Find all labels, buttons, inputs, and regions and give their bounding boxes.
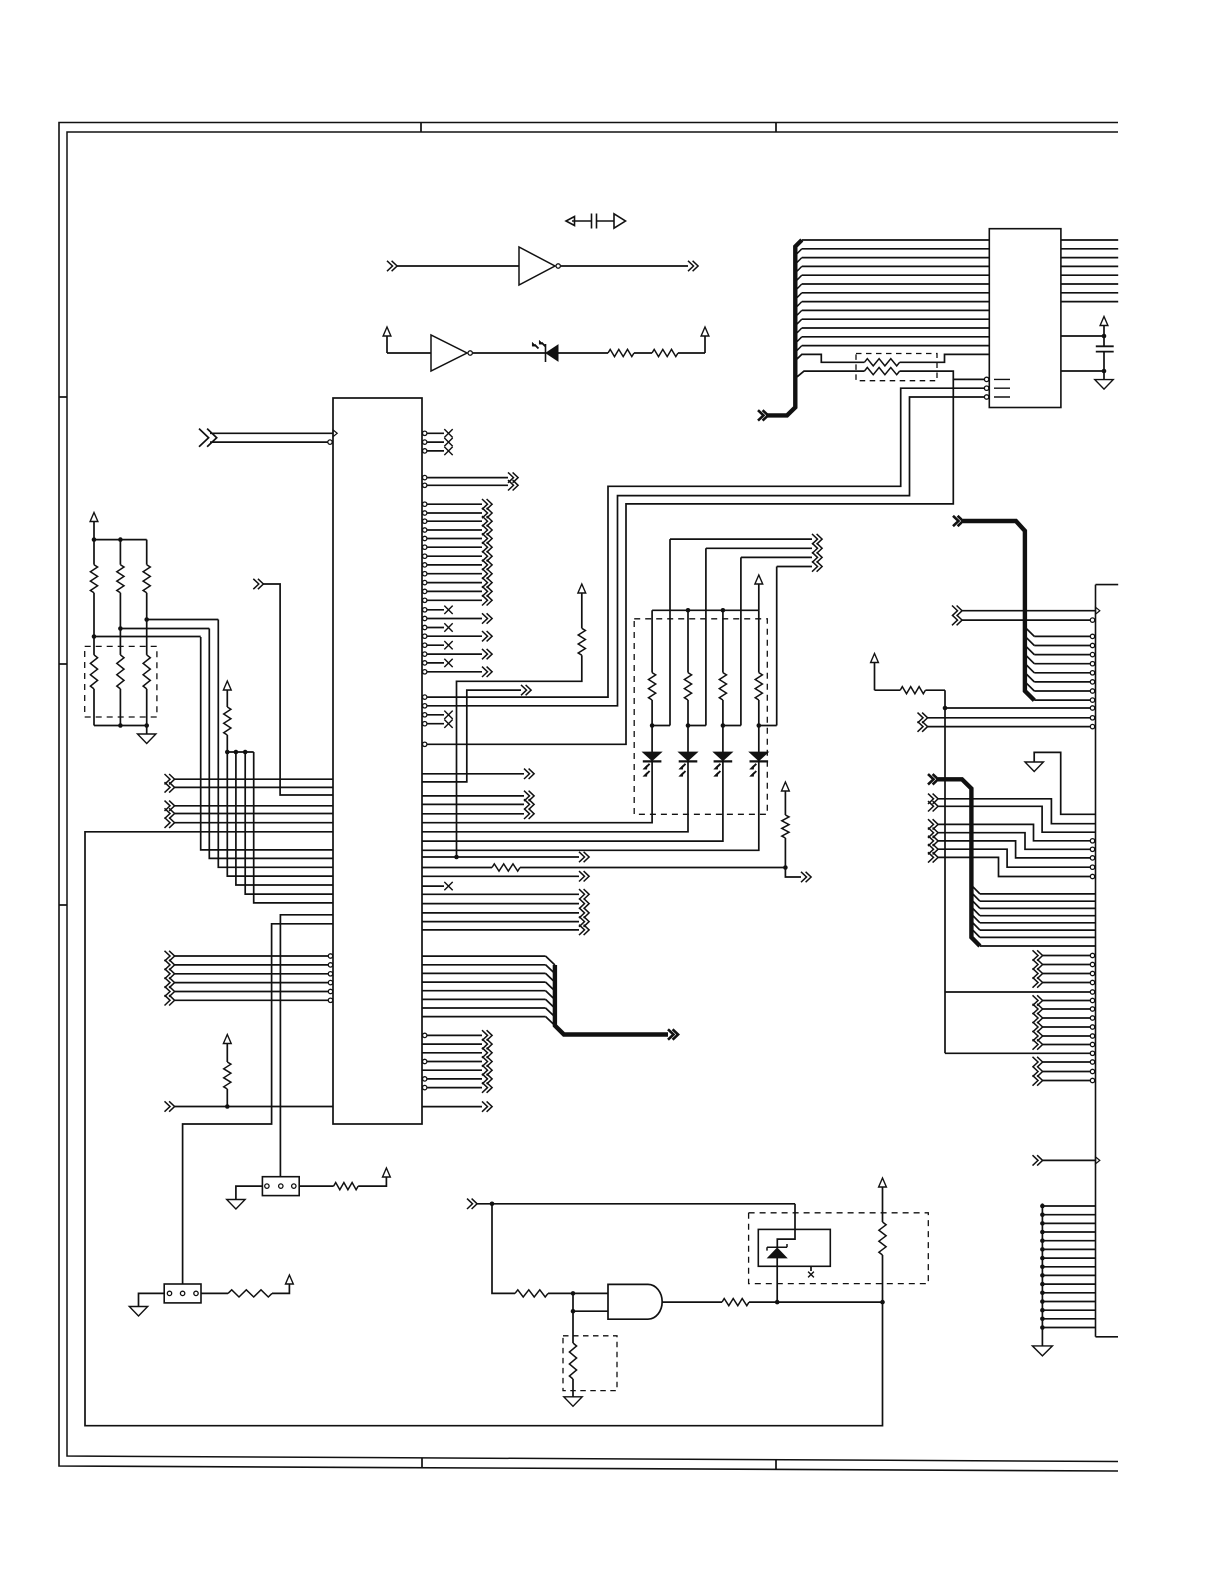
output chevron [482, 1030, 492, 1040]
jog to chevron [785, 868, 801, 878]
border tick bottom left [421, 1458, 423, 1468]
junction [783, 865, 788, 870]
page border outer [59, 123, 1118, 1472]
wire to G1 input A [548, 1292, 608, 1294]
tap wire to CN1 [945, 1052, 1090, 1054]
resistor R20 [608, 349, 634, 356]
input tie [572, 1293, 574, 1311]
junction [92, 634, 97, 639]
output chevron [579, 871, 589, 881]
LED anode [722, 726, 724, 753]
gnd stem [146, 726, 148, 735]
LED anode wire [687, 610, 689, 672]
VCC arrow at R7 [223, 1035, 231, 1044]
wire into U4 [387, 352, 431, 354]
LED anode rail [652, 609, 759, 611]
bus rip diagonal [546, 982, 555, 991]
U1 pin bubble [423, 634, 427, 638]
CN1 pin bubble [1090, 1042, 1094, 1046]
LED D1 cathode bar [643, 760, 662, 762]
junction [1102, 369, 1107, 374]
LED D1 [643, 752, 662, 761]
wire to U1 [175, 955, 329, 957]
U1 pin bubble [328, 963, 332, 967]
VCC arrow at resistor bank [90, 513, 98, 522]
nc stub [427, 714, 444, 716]
junction on rail [686, 608, 691, 613]
no-connect X [444, 882, 452, 890]
output chevron [482, 577, 492, 587]
U1 pin bubble [423, 502, 427, 506]
wire [422, 893, 579, 895]
output chevron [524, 791, 534, 801]
bus rip diagonal [546, 956, 555, 965]
line into U1 [236, 752, 333, 885]
input chevron [1033, 1031, 1043, 1041]
wire [427, 1061, 482, 1063]
page border inner [67, 132, 1118, 1462]
wire [422, 903, 579, 905]
U1 pin bubble [423, 475, 427, 479]
resistor R8 [224, 707, 231, 735]
junction [118, 723, 123, 728]
junction [118, 626, 123, 631]
CN1 pin bubble [1090, 724, 1094, 728]
wire to CN1 [1034, 690, 1090, 692]
U1 pin bubble [423, 695, 427, 699]
ladder rung to CN1 [1042, 1214, 1095, 1216]
wire input net [477, 1203, 795, 1205]
wire to CN1 [1043, 1071, 1091, 1073]
U1 pin bubble [423, 528, 427, 532]
bus line to U2 [802, 336, 990, 338]
pull-up wire [457, 655, 582, 857]
wire [784, 838, 786, 868]
J2 pin 3 [292, 1184, 296, 1188]
LED anode wire [758, 610, 760, 672]
input chevron [1033, 1013, 1043, 1023]
junction [118, 537, 123, 542]
LED D4 cathode bar [750, 760, 769, 762]
dashed option box around R18 R19 [856, 354, 937, 381]
wire [427, 582, 482, 584]
stem [226, 691, 228, 708]
wire to CN1 [1034, 635, 1090, 637]
wire to CN1 [1034, 699, 1090, 701]
stem [226, 1089, 228, 1107]
junction [1040, 1273, 1045, 1278]
U1 pin bubble [423, 545, 427, 549]
bus line to U2 [802, 301, 990, 303]
LED drive line [777, 566, 812, 568]
U4 output bubble [468, 351, 472, 355]
nc stub [427, 644, 444, 646]
bus rip diagonal [795, 337, 802, 344]
output chevron [482, 586, 492, 596]
AND gate G1 [608, 1284, 662, 1319]
wire output net [749, 1301, 883, 1303]
bus rip diagonal [971, 914, 980, 923]
wire to R18 [795, 354, 864, 362]
resistor (lower bank) [90, 655, 97, 689]
line into U1 [227, 752, 333, 876]
resistor R12 [755, 673, 762, 700]
wire to CN1 [938, 833, 1090, 850]
output chevron [579, 916, 589, 926]
junction [880, 1300, 885, 1305]
border tick top right [775, 123, 777, 133]
CN1 pin bubble [1090, 643, 1094, 647]
net U2 pin2 to U1 pin [427, 388, 984, 697]
thick bus spine [938, 779, 980, 946]
wire [422, 1043, 482, 1045]
wire [427, 1087, 482, 1089]
no-connect X [444, 447, 452, 455]
LED D5 (emitting diode) [546, 345, 558, 361]
wire U2 to C vcc [1061, 335, 1104, 337]
wire [427, 599, 482, 601]
input chevron [928, 801, 938, 811]
output chevron [579, 925, 589, 935]
capacitor off-page symbol C [566, 214, 626, 229]
U2 internal pin stubs [994, 379, 1010, 397]
bus rip diagonal [795, 284, 802, 291]
wire to U1 [210, 441, 328, 443]
J1 pin 3 [194, 1291, 198, 1295]
wire to CN1 [938, 806, 1096, 832]
output chevron [482, 613, 492, 623]
LED cathode net to U1 [422, 762, 759, 850]
LED D2 [679, 752, 698, 761]
no-connect X [444, 711, 452, 719]
J2 pin 1 [265, 1184, 269, 1188]
input chevron [1033, 959, 1043, 969]
wire to G1 input B [573, 1310, 608, 1312]
junction [225, 1104, 230, 1109]
wire to CN1 [980, 893, 1096, 895]
input chevron [165, 774, 175, 784]
bus rip diagonal [546, 973, 555, 982]
LED anode wire [722, 610, 724, 672]
CN1 pin bubble [1090, 698, 1094, 702]
U1 pin bubble [328, 954, 332, 958]
U1 pin bubble [423, 563, 427, 567]
wire to CN1 [980, 936, 1096, 938]
bank top rail [94, 539, 147, 541]
junction [1040, 1221, 1045, 1226]
U1 pin bubble [423, 625, 427, 629]
output chevron [508, 480, 518, 490]
junction [490, 1202, 495, 1207]
wire [427, 512, 482, 514]
junction [686, 723, 691, 728]
wire to U1 [175, 822, 334, 824]
output chevron [482, 1082, 492, 1092]
junction [943, 706, 948, 711]
bus rip diagonal [546, 991, 555, 1000]
junction [757, 723, 762, 728]
wire [119, 689, 121, 726]
wire to CN1 [1043, 973, 1091, 975]
LED D5 emission arrows [535, 343, 546, 349]
pair link [688, 725, 706, 727]
nc stub [427, 450, 444, 452]
wire [146, 593, 148, 655]
wire [427, 590, 482, 592]
IC U2 (top-right) [989, 229, 1061, 408]
input chevron [467, 1199, 477, 1209]
output chevron from U3 [688, 261, 698, 271]
ladder rung to CN1 [1042, 1266, 1095, 1268]
wire [427, 546, 482, 548]
U1 pin bubble [328, 989, 332, 993]
junction [1040, 1238, 1045, 1243]
U1 pin bubble [328, 440, 332, 444]
CN1 pin bubble [1090, 716, 1094, 720]
wire inside box [777, 1229, 795, 1247]
border tick top left [420, 123, 422, 133]
wire to CN1 [1043, 1080, 1091, 1082]
dashed box around D6 [749, 1213, 929, 1284]
zener diode D6 [768, 1248, 787, 1258]
wire [422, 912, 579, 914]
VCC arrow at R8 [223, 681, 231, 690]
wire [427, 520, 482, 522]
ground at J2 [227, 1200, 245, 1210]
junction on rail [721, 608, 726, 613]
wire [119, 593, 121, 655]
wire to CN1 [980, 929, 1096, 931]
U2 output line right [1061, 257, 1118, 259]
wire to U1 [175, 786, 334, 788]
CN1 pin bubble [1090, 1016, 1094, 1020]
wire to VCC [272, 1285, 289, 1294]
U1 pin bubble [423, 608, 427, 612]
CN1 pin bubble [1090, 1060, 1094, 1064]
U1 pin bubble [423, 1033, 427, 1037]
U2 output line right [1061, 274, 1118, 276]
wire to CN1 [1043, 1159, 1096, 1161]
wire [146, 689, 148, 726]
resistor (upper bank) [90, 565, 97, 593]
U1 pin bubble [328, 998, 332, 1002]
nc stub [427, 723, 444, 725]
input chevron [165, 960, 175, 970]
bus rip diagonal [795, 310, 802, 317]
LED D4 [750, 752, 769, 761]
output chevron [579, 908, 589, 918]
bus line to U2 [802, 265, 990, 267]
connector CN1 edge [1096, 585, 1119, 1337]
ladder rung to CN1 [1042, 1283, 1095, 1285]
CN1 pin bubble [1090, 1034, 1094, 1038]
wire R19 to U2 pin [900, 371, 984, 379]
U1 pin bubble [423, 722, 427, 726]
IC U1 (main controller) [333, 398, 422, 1124]
junction [1040, 1282, 1045, 1287]
wire G1 output [662, 1301, 722, 1303]
input chevron [928, 844, 938, 854]
U1 pin bubble [423, 536, 427, 540]
CN1 pin bubble [1090, 865, 1094, 869]
border tick bottom right [775, 1460, 777, 1470]
output chevron [482, 1065, 492, 1075]
output chevron [812, 552, 822, 562]
junction [650, 723, 655, 728]
no-connect X [444, 659, 452, 667]
junction [1040, 1256, 1045, 1261]
wire [651, 700, 653, 726]
wire to CN1 [1043, 1008, 1091, 1010]
U1 pin bubble [423, 1085, 427, 1089]
resistor R23 [492, 864, 520, 871]
output chevron [482, 560, 492, 570]
bus rip diagonal [546, 1008, 555, 1017]
ladder rung to CN1 [1042, 1309, 1095, 1311]
wire into U3 [397, 265, 519, 267]
gnd stem [1041, 1328, 1043, 1346]
CN1 pin bubble [1090, 652, 1094, 656]
wire to U1 [175, 991, 329, 993]
output chevron [524, 809, 534, 819]
border tick left upper [59, 396, 67, 398]
wire [875, 689, 901, 691]
zener D6 cathode bar [767, 1244, 787, 1251]
wire from U3 [561, 265, 688, 267]
wire [422, 813, 524, 815]
wire [422, 1052, 482, 1054]
CN1 pin bubble [1090, 980, 1094, 984]
VCC arrow at R6 [383, 1168, 391, 1177]
wire [520, 867, 785, 869]
wire D6 to output net [776, 1258, 778, 1302]
CN1 pin bubble [1090, 689, 1094, 693]
nc stub [810, 1266, 812, 1271]
junction [234, 750, 239, 755]
U1 pin bubble [423, 670, 427, 674]
U2 output line right [1061, 301, 1118, 303]
U1 pin bubble [423, 440, 427, 444]
CN1 pin bubble [1090, 962, 1094, 966]
U2 output line right [1061, 265, 1118, 267]
tap wire to CN1 [945, 991, 1090, 993]
U2 output line right [1061, 283, 1118, 285]
ground net to CN1 [1034, 752, 1095, 814]
CN1 pin bubble [1090, 856, 1094, 860]
resistor R4 [569, 1343, 576, 1379]
input chevron [165, 818, 175, 828]
U1 pin bubble [423, 742, 427, 746]
LED anode [651, 726, 653, 753]
output chevron [524, 769, 534, 779]
wire C2 to gnd [1103, 352, 1105, 380]
wire [201, 1292, 228, 1294]
wire [427, 573, 482, 575]
resistor R24 [782, 815, 789, 838]
bus rip diagonal [1025, 645, 1034, 654]
U1 pin bubble [423, 431, 427, 435]
inverter U4 [431, 335, 467, 371]
line into U1 [245, 752, 333, 894]
U2 output line right [1061, 239, 1118, 241]
ladder rung to CN1 [1042, 1257, 1095, 1259]
jumper J1 [164, 1284, 201, 1303]
bus line from U1 [422, 981, 546, 983]
junction [1102, 334, 1107, 339]
bus rip diagonal [795, 346, 802, 353]
junction [144, 723, 149, 728]
ground at CN1 ladder [1032, 1346, 1052, 1356]
wire to U1 [175, 982, 329, 984]
U1 pin bubble [423, 661, 427, 665]
wire [422, 1106, 482, 1108]
U1 pin bubble [423, 511, 427, 515]
resistor R5 [228, 1290, 272, 1297]
J1 pin 1 [167, 1291, 171, 1295]
wire U2 to C gnd [1061, 370, 1104, 372]
U3 output bubble [556, 264, 560, 268]
pair link [759, 725, 777, 727]
wire [93, 593, 95, 655]
wire to CN1 [1043, 982, 1091, 984]
input chevron pair [199, 429, 217, 447]
bus line to U2 [802, 318, 990, 320]
bus rip diagonal [1025, 654, 1034, 663]
ladder rung to CN1 [1042, 1205, 1095, 1207]
bus line to U2 [802, 283, 990, 285]
wire to CN1 [938, 799, 1096, 824]
junction [1040, 1265, 1045, 1270]
CN1 pin bubble [1090, 953, 1094, 957]
U1 pin arrow tip [333, 430, 337, 437]
bus line from U1 [422, 1016, 546, 1018]
input chevron [165, 969, 175, 979]
bus line to U2 [802, 327, 990, 329]
wire to CN1 [1043, 1035, 1091, 1037]
bus line from U1 [422, 990, 546, 992]
output chevron [812, 561, 822, 571]
input chevron [165, 951, 175, 961]
wire [758, 700, 760, 726]
wire [422, 803, 524, 805]
U1 pin bubble [423, 616, 427, 620]
U1 pin bubble [423, 1077, 427, 1081]
pair link [723, 725, 741, 727]
wire [427, 635, 482, 637]
CN1 pin bubble [1090, 1069, 1094, 1073]
bus rip diagonal [1025, 673, 1034, 682]
border tick left lower [59, 904, 67, 906]
wire to CN1 [1043, 1017, 1091, 1019]
thick bus output chevron [668, 1029, 678, 1039]
address line into U1 [201, 637, 333, 850]
VCC arrow at R21 [701, 327, 709, 336]
bus rip diagonal [971, 900, 980, 909]
wire to CN1 [980, 945, 1096, 947]
U1 pin bubble [423, 519, 427, 523]
CN1 pin bubble [1090, 971, 1094, 975]
wire to U1 [175, 964, 329, 966]
VCC arrow at LED bank [755, 575, 763, 584]
resistor R3 [722, 1299, 749, 1306]
ladder rung to CN1 [1042, 1231, 1095, 1233]
ladder rung to CN1 [1042, 1318, 1095, 1320]
net to U1 pin [263, 584, 333, 795]
no-connect X [444, 623, 452, 631]
wire [427, 653, 482, 655]
input chevron [165, 986, 175, 996]
wire to CN1 [938, 841, 1090, 858]
